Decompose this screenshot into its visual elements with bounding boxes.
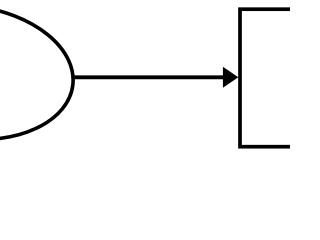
ellipse node (cut off at left edge) xyxy=(0,0,81,151)
rectangle node (cut off at right edge) xyxy=(240,9,302,147)
wire (arrow shaft) xyxy=(73,75,227,79)
arrowhead xyxy=(223,67,238,88)
